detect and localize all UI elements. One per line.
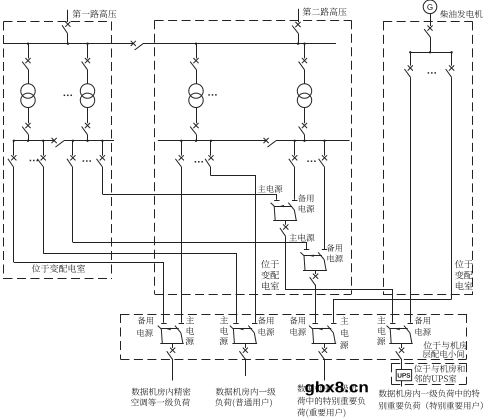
generator G circle xyxy=(423,0,437,14)
label: load of ATS3 xyxy=(132,388,191,396)
LV bus 2b xyxy=(276,140,350,142)
transformer T4 xyxy=(297,84,311,98)
breaker QF1 (incomer 1) xyxy=(65,22,70,27)
node: T4 HV junction xyxy=(303,43,305,45)
label: load of ATS4 xyxy=(216,388,276,396)
breaker, T2 secondary xyxy=(87,108,89,124)
breaker, T3 primary xyxy=(196,44,198,59)
transfer switch ATS6 xyxy=(390,323,395,325)
gen feeder 1 (to ATS6 backup) xyxy=(410,52,412,66)
breaker, generator xyxy=(427,26,432,31)
ellipsis dots between T3,T4 xyxy=(208,94,210,96)
wire: ATS3 load xyxy=(172,359,174,381)
breaker, T1 secondary xyxy=(28,108,30,124)
LV bus 1a xyxy=(13,140,54,142)
breaker QF2 (incomer 2) xyxy=(295,22,300,27)
dashed room box: diesel generator room xyxy=(383,21,472,23)
node: f7 junction xyxy=(294,140,296,142)
breaker, T1 primary xyxy=(28,44,30,59)
node: T1 sec junction xyxy=(27,140,29,142)
LV bus 2a xyxy=(158,140,266,142)
label: ATS2 backup supply xyxy=(327,244,335,252)
LV bus 1b xyxy=(64,140,114,142)
wire: ATS4 load xyxy=(245,359,247,376)
label: diesel generator xyxy=(440,10,448,18)
label: load of ATS5 xyxy=(297,384,356,392)
label: ATS1 backup supply xyxy=(298,194,306,202)
label: first HV incoming feed xyxy=(73,10,81,18)
breaker, ATS5 output xyxy=(324,344,326,348)
wire: incomer 1 drop xyxy=(67,10,69,22)
breaker, T2 primary xyxy=(87,44,89,59)
node: f4 junction xyxy=(101,140,103,142)
feeder f5 (to ATS3 main) xyxy=(181,141,183,156)
watermark gbx8.cn xyxy=(305,381,368,395)
ellipsis dots feeders group3 xyxy=(195,161,197,163)
transfer switch ATS5 xyxy=(313,323,318,325)
feeder f6 (to ATS4 backup) xyxy=(210,141,212,156)
transfer switch ATS2 xyxy=(304,249,309,251)
node: f1 junction xyxy=(13,140,15,142)
feeder f2 (to ATS4 main) xyxy=(43,141,45,156)
transformer T1 xyxy=(21,84,35,98)
feeder f1 (to ATS3 backup) xyxy=(13,141,15,156)
label: second HV incoming feed xyxy=(303,8,311,16)
UPS box U1 xyxy=(396,370,411,381)
dashed room box: floor distribution closet xyxy=(120,314,466,316)
wire: generator drop xyxy=(430,14,432,26)
label: ATS4 main supply (vertical) xyxy=(220,316,228,324)
node: incomer1-bus junction xyxy=(67,43,69,45)
node: T3 sec junction xyxy=(195,140,197,142)
ellipsis dots gen feeders xyxy=(428,72,430,74)
node: T2 sec junction xyxy=(86,140,88,142)
feeder f8 (to ATS2 backup) xyxy=(324,141,326,156)
wire: ATS5 load xyxy=(324,359,326,381)
label: in transformer room 2 xyxy=(261,260,279,268)
wire: ATS2 output to ATS5 backup xyxy=(315,285,317,323)
node: T2 HV junction xyxy=(86,43,88,45)
transfer switch ATS1 xyxy=(274,200,279,202)
feeder f4 (to ATS1 main) xyxy=(102,141,104,156)
ellipsis dots feeders group2 xyxy=(83,160,85,162)
ellipsis dots between T1,T2 xyxy=(64,95,66,97)
node: T3 HV junction xyxy=(195,43,197,45)
ellipsis dots feeders group1 xyxy=(30,160,32,162)
LV bus1 tie breaker xyxy=(52,138,57,143)
HV bus section 2 xyxy=(143,43,336,45)
node: T1 HV junction xyxy=(27,43,29,45)
node: f2 junction xyxy=(42,140,44,142)
wire: UPS output xyxy=(401,381,403,387)
breaker, T4 secondary xyxy=(304,108,306,124)
label: ATS5 main supply (vertical) xyxy=(340,317,348,325)
label: ATS6 backup supply xyxy=(415,317,431,325)
label: located in floor distribution closet xyxy=(424,341,468,349)
feeder f7 (to ATS1 backup) xyxy=(294,141,296,156)
breaker, ATS4 output xyxy=(245,344,247,348)
node: f8 junction xyxy=(323,140,325,142)
transfer switch ATS4 xyxy=(233,323,238,325)
HV bus section 1 xyxy=(4,43,134,45)
wire: ATS1 output to ATS6 main xyxy=(286,239,393,323)
gen feeder 2 (to ATS5 main) xyxy=(451,52,453,66)
label: ATS4 backup supply xyxy=(258,317,274,325)
breaker, ATS6 output xyxy=(401,344,403,348)
ellipsis dots feeders group4 xyxy=(307,160,309,162)
label: ATS2 main supply xyxy=(289,234,297,242)
wire: ATS6 output to UPS xyxy=(401,359,403,370)
node: T4 sec junction xyxy=(303,140,305,142)
label: ATS3 main supply (vertical) xyxy=(186,316,194,324)
breaker, ATS1 output xyxy=(285,221,287,225)
transformer T2 xyxy=(80,84,94,98)
label: ATS5 backup supply xyxy=(290,317,306,325)
transfer switch ATS3 xyxy=(161,323,166,325)
transformer T3 xyxy=(189,84,203,98)
label: in transformer room (gen) xyxy=(455,260,473,268)
breaker, ATS2 output xyxy=(315,270,317,274)
node: f3 junction xyxy=(72,140,74,142)
node: incomer2-bus junction xyxy=(297,43,299,45)
generator LV bus xyxy=(410,52,451,54)
breaker, T4 primary xyxy=(304,44,306,59)
label: located in adjacent UPS room xyxy=(414,365,465,373)
node: f6 junction xyxy=(210,140,212,142)
label: ATS3 backup supply xyxy=(138,317,154,325)
dashed room box: UPS room xyxy=(391,363,466,365)
breaker, ATS3 output xyxy=(172,344,174,348)
wire: incomer 2 drop xyxy=(298,9,300,22)
dashed room box: transformer room 2 xyxy=(155,20,352,22)
label: ATS1 main supply xyxy=(258,185,266,192)
feeder f3 (to ATS2 main) xyxy=(72,141,74,156)
breaker, T3 secondary xyxy=(196,108,198,124)
LV bus2 tie breaker xyxy=(264,138,269,143)
label: load of ATS6 xyxy=(379,389,480,397)
HV bus tie breaker xyxy=(131,41,136,46)
node: f5 junction xyxy=(180,140,182,142)
dashed room box: transformer room 1 xyxy=(4,21,112,23)
label: in transformer room 1 xyxy=(32,264,40,272)
label: ATS6 main supply (vertical) xyxy=(377,316,385,324)
